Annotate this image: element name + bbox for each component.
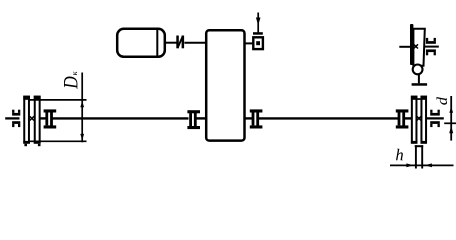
wire guide roller shaft stub (399, 46, 410, 48)
wire coupling to gearbox (184, 42, 206, 44)
wire long left axle (53, 117, 189, 119)
brake T on input shaft (253, 13, 263, 50)
wire coupling C2 to gearbox (197, 117, 207, 119)
dimension d line (450, 96, 452, 141)
wire motor shaft (165, 42, 178, 44)
rail web / h extension line right (421, 145, 423, 168)
label h (rail width) (396, 149, 403, 161)
gearbox (reducer) (206, 30, 244, 140)
motor M (117, 28, 165, 57)
bearing left axle end (12, 110, 20, 127)
wire coupling C4 to right wheel (405, 117, 412, 119)
rail web / h extension line left (415, 145, 417, 168)
pivot circle under guide roller (413, 65, 423, 75)
coupling C4 (right wheel axle) (396, 109, 409, 128)
bearing right wheel axle (430, 110, 440, 127)
wire guide roller right stub (425, 46, 439, 48)
dimension D extension line top (29, 99, 87, 101)
support stem (418, 74, 420, 83)
dimension D extension line bottom (29, 140, 87, 142)
dimension h arrow left (425, 163, 432, 167)
wire axle left stub (5, 117, 19, 119)
dimension h arrow right (406, 163, 413, 167)
bearing x-mark right wheel (417, 116, 421, 120)
wire gearbox to coupling C3 (245, 117, 253, 119)
guide roller (horizontal wheel) (410, 24, 425, 66)
coupling (elastic) motor to gearbox (176, 36, 184, 49)
coupling C2 (gearbox left) (187, 110, 200, 129)
support base (412, 83, 428, 86)
wire right axle outer stub (427, 117, 444, 119)
coupling C1 (left wheel axle) (44, 109, 57, 128)
bearing x-mark guide roller (414, 44, 418, 48)
wire wheel to coupling C1 (40, 117, 46, 119)
dimension d arrow up (449, 107, 453, 113)
bearing x-mark left wheel (30, 116, 34, 120)
dimension d extension line (444, 122, 456, 124)
wheel left travel wheel (23, 96, 40, 147)
rail head under right wheel (415, 145, 424, 147)
dimension D arrow down (80, 134, 84, 140)
coupling C3 (gearbox right) (250, 109, 263, 128)
label D (wheel diameter) (64, 77, 77, 90)
label D subscript (73, 71, 77, 75)
bearing guide roller axle (426, 38, 436, 55)
wheel right travel wheel (411, 96, 427, 144)
dimension D line (81, 73, 83, 143)
wire gearbox to brake (244, 42, 253, 44)
wire long right axle (259, 117, 399, 119)
dimension D arrow up (80, 101, 84, 107)
dimension h line (390, 164, 454, 166)
dimension d arrow down (449, 126, 453, 134)
label d (axle diameter) (437, 97, 448, 105)
